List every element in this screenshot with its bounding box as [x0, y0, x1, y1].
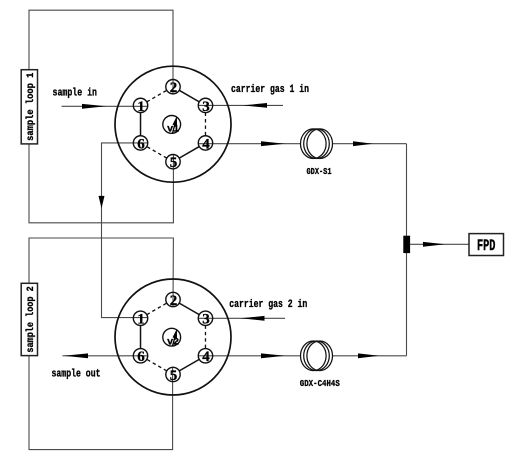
svg-text:sample loop 1: sample loop 1 [25, 73, 37, 141]
svg-text:FPD: FPD [477, 237, 496, 255]
svg-text:carrier gas 1 in: carrier gas 1 in [231, 84, 309, 96]
svg-text:sample out: sample out [52, 368, 101, 380]
svg-text:6: 6 [137, 349, 145, 365]
svg-text:1: 1 [137, 99, 145, 115]
svg-text:v1: v1 [167, 125, 179, 136]
svg-text:5: 5 [170, 368, 178, 384]
svg-text:1: 1 [137, 312, 145, 328]
svg-text:carrier gas 2 in: carrier gas 2 in [229, 299, 307, 311]
svg-text:v2: v2 [167, 338, 179, 349]
svg-text:sample in: sample in [53, 88, 98, 100]
svg-text:6: 6 [137, 136, 145, 152]
svg-text:3: 3 [202, 99, 210, 115]
svg-text:2: 2 [170, 80, 178, 96]
svg-text:GDX-C4H4S: GDX-C4H4S [300, 378, 340, 389]
svg-text:4: 4 [202, 136, 210, 152]
svg-text:5: 5 [170, 155, 178, 171]
svg-text:sample loop 2: sample loop 2 [25, 286, 37, 352]
svg-text:4: 4 [202, 349, 210, 365]
svg-text:3: 3 [202, 312, 210, 328]
svg-text:GDX-S1: GDX-S1 [307, 166, 332, 177]
svg-text:2: 2 [170, 293, 178, 309]
